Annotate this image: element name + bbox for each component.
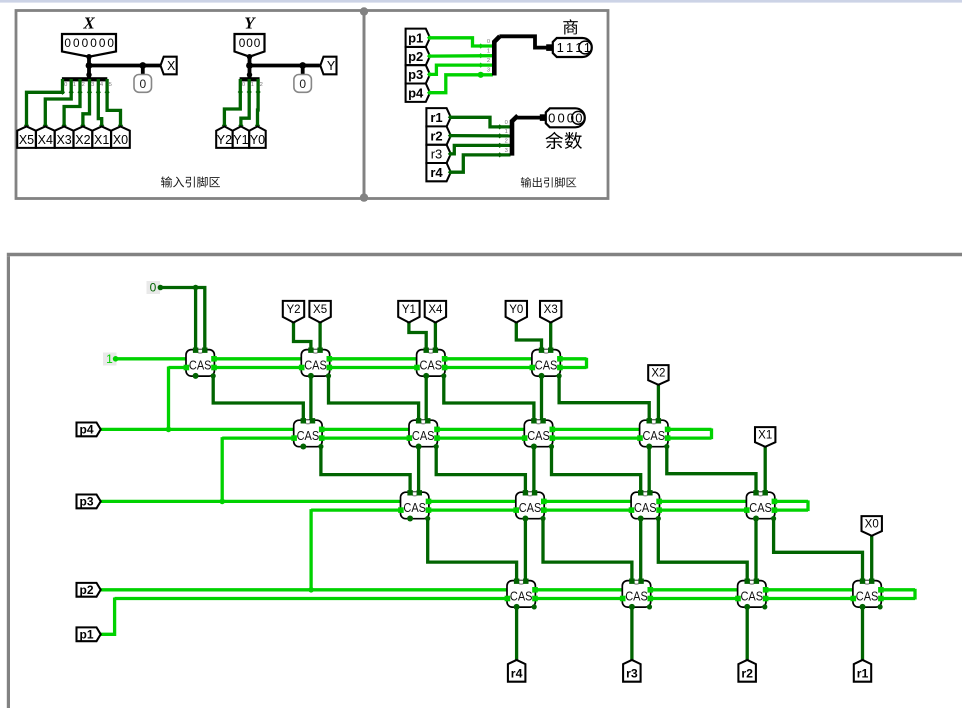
wire: CAS r4c3 to tunnel r2 <box>746 607 749 662</box>
wire: row 2 control line (P) <box>99 428 712 431</box>
tunnel r4 <box>508 660 526 682</box>
label quotient (shang) <box>563 19 578 34</box>
joint at tunnel X5 <box>318 319 323 324</box>
wire end at tunnel r3 <box>448 151 453 156</box>
wire: CAS r1c1 sum-out to CAS r2c1 top-left <box>213 376 303 420</box>
wire end at tunnel r1 <box>448 115 453 120</box>
wire: tunnel X5 to CAS r1c2 top-right <box>318 322 321 350</box>
wire: row3 P chain down to p2 line <box>309 509 312 590</box>
splitter quotient (4 to 1) <box>494 36 500 75</box>
joint on remainder bit2 <box>497 143 502 148</box>
tunnel Y <box>320 57 336 75</box>
svg-text:CAS: CAS <box>510 589 533 603</box>
joint at constant 0 <box>158 285 164 291</box>
tunnel p1 <box>77 627 101 641</box>
tunnel Y0 <box>506 301 527 323</box>
output pin quotient (value 1111) <box>553 38 592 57</box>
tunnel Y1 <box>398 301 419 323</box>
svg-text:CAS: CAS <box>535 358 558 372</box>
wire: CAS r3c4 sum-out to CAS r4c4 top-left <box>774 519 863 581</box>
wire: row 2 U-turn <box>710 428 713 439</box>
svg-text:r2: r2 <box>430 128 442 143</box>
wire: tunnel X4 to CAS r1c3 top-right <box>434 322 437 350</box>
tunnel X4 <box>36 126 55 147</box>
tunnel r3 <box>623 660 641 682</box>
svg-text:1: 1 <box>566 40 573 55</box>
svg-text:p2: p2 <box>79 583 93 597</box>
svg-text:2: 2 <box>260 82 263 88</box>
output pin stub <box>546 44 553 51</box>
tunnel X2 <box>648 365 668 385</box>
wire joint on X leg 2 <box>77 90 82 95</box>
svg-text:1: 1 <box>251 82 254 88</box>
wire: r4 to remainder splitter bit3 <box>451 155 511 172</box>
wire joint on X leg 5 <box>105 90 110 95</box>
tunnel X1 <box>755 427 775 447</box>
tunnel Y2 <box>283 301 304 323</box>
svg-text:1: 1 <box>557 40 564 55</box>
svg-text:CAS: CAS <box>749 501 772 515</box>
svg-text:0: 0 <box>90 36 97 50</box>
caption: output pin area <box>521 177 576 187</box>
wire: CAS r3c3 rem-out down to CAS r4c2 top-right <box>639 519 642 581</box>
wire: row 3 control line (P) <box>99 500 808 503</box>
svg-text:p1: p1 <box>79 628 93 642</box>
wire: X splitter leg 3 to tunnel X2 <box>83 79 90 128</box>
tunnel X5 <box>309 301 330 323</box>
CAS cell row 1 col 3 <box>414 348 447 379</box>
svg-text:0: 0 <box>567 111 574 126</box>
wire: CAS r3c3 sum-out to CAS r4c3 top-left <box>658 519 747 581</box>
window top strip <box>0 0 962 3</box>
svg-text:r4: r4 <box>511 666 523 680</box>
svg-text:1: 1 <box>505 129 508 135</box>
CAS cell row 1 col 4 <box>530 348 563 379</box>
svg-text:0: 0 <box>505 120 508 126</box>
panel frame: input pin area <box>16 11 364 199</box>
wire: X bus to tunnel X <box>89 64 161 68</box>
wire: CAS r1c2 sum-out to CAS r2c2 top-left <box>329 376 419 420</box>
tunnel r4 <box>426 163 450 181</box>
junction at probe X stub <box>139 62 146 69</box>
wire: tunnel Y0 to CAS r1c4 top-left <box>516 322 541 350</box>
svg-text:0: 0 <box>242 82 245 88</box>
svg-text:0: 0 <box>73 36 80 50</box>
joint at tunnel Y0 <box>514 319 519 324</box>
wire end at tunnel r2 <box>448 133 453 138</box>
wire: X splitter leg 2 to tunnel X3 <box>64 79 80 128</box>
joint at tunnel X0 <box>869 533 874 538</box>
wire end at X tunnel <box>43 123 48 128</box>
wire: CAS r2c3 rem-out down to CAS r3c2 top-right <box>532 447 535 493</box>
joint at tunnel Y2 <box>291 319 296 324</box>
wire: CAS r1c2 rem-out down to CAS r2c1 top-right <box>309 376 312 420</box>
wire: r3 to remainder splitter bit2 <box>451 145 511 154</box>
svg-text:X3: X3 <box>56 133 71 147</box>
svg-text:Y0: Y0 <box>509 304 523 316</box>
svg-text:0: 0 <box>82 36 89 50</box>
tunnel r2 <box>738 660 756 682</box>
wire: r2 to remainder splitter bit1 <box>451 134 511 138</box>
svg-text:X0: X0 <box>865 519 879 531</box>
svg-text:CAS: CAS <box>304 358 327 372</box>
svg-text:CAS: CAS <box>403 501 426 515</box>
svg-text:0: 0 <box>99 36 106 50</box>
junction constant 0 wire <box>193 285 199 291</box>
probe Y (value 0) <box>294 75 312 93</box>
svg-text:CAS: CAS <box>519 501 542 515</box>
junction at X pin output <box>86 54 91 59</box>
CAS cell row 3 col 3 <box>629 490 662 521</box>
wire: tunnel X2 to CAS r2c4 top-right <box>657 381 660 421</box>
CAS cell row 4 col 2 <box>620 579 653 610</box>
svg-text:0: 0 <box>557 111 564 126</box>
wire: Y splitter leg 0 to tunnel Y2 <box>224 79 240 128</box>
wire: tunnel Y2 to CAS r1c2 top-left <box>294 322 311 350</box>
svg-text:X: X <box>167 59 176 73</box>
svg-text:Y0: Y0 <box>250 133 265 147</box>
wire end at X tunnel <box>24 123 29 128</box>
caption: input pin area <box>161 176 220 187</box>
svg-text:1: 1 <box>73 82 76 88</box>
junction on X bus <box>86 62 93 69</box>
splitter remainder (4 to 1) <box>512 116 518 156</box>
wire joint on Y leg 1 <box>247 89 252 94</box>
svg-text:2: 2 <box>82 82 85 88</box>
wire: CAS r4c4 to tunnel r1 <box>861 607 864 662</box>
svg-text:X0: X0 <box>113 133 128 147</box>
joint at tunnel X3 <box>548 319 553 324</box>
wire joint on X leg 3 <box>87 90 92 95</box>
svg-text:CAS: CAS <box>420 358 443 372</box>
joint at tunnel p1 <box>95 632 100 637</box>
joint at constant 1 <box>113 356 119 362</box>
tunnel X4 <box>425 301 446 323</box>
junction p3 line <box>219 499 225 505</box>
svg-text:0: 0 <box>107 36 114 50</box>
svg-text:CAS: CAS <box>189 358 212 372</box>
tunnel p3 <box>77 495 101 509</box>
wire end at X tunnel <box>80 123 85 128</box>
junction above Y splitter <box>247 72 252 77</box>
splitter Y (1 to 3) <box>240 77 260 81</box>
joint at tunnel X1 <box>763 444 768 449</box>
svg-text:r3: r3 <box>431 147 443 162</box>
svg-text:1: 1 <box>584 40 591 55</box>
wire: CAS r3c2 rem-out down to CAS r4c1 top-right <box>524 519 527 581</box>
CAS cell row 4 col 3 <box>735 579 768 610</box>
tunnel X5 <box>17 126 36 147</box>
wire: r1 to remainder splitter bit0 <box>451 117 511 127</box>
wire: CAS r4c1 to tunnel r4 <box>515 607 518 662</box>
wire: CAS r1c3 sum-out to CAS r2c3 top-left <box>444 376 534 420</box>
joint on quotient bit2 <box>478 63 483 68</box>
output pin stub (remainder) <box>540 114 547 121</box>
main circuit panel border <box>7 256 10 708</box>
svg-text:2: 2 <box>487 58 490 64</box>
svg-text:Y2: Y2 <box>217 133 232 147</box>
svg-text:p4: p4 <box>408 85 424 100</box>
svg-text:0: 0 <box>299 77 306 91</box>
wire end at tunnel p3 <box>427 72 432 77</box>
tunnel r2 <box>426 126 450 144</box>
wire: row 1 control return line <box>169 366 587 369</box>
joint at tunnel p3 <box>95 499 100 504</box>
junction p4 line <box>166 427 172 433</box>
junction p2 line <box>308 587 314 593</box>
junction at Y pin output <box>247 54 252 59</box>
wire: row 1 U-turn <box>585 358 588 369</box>
svg-text:Y1: Y1 <box>233 133 248 147</box>
wire: row 2 control return line <box>222 436 711 439</box>
svg-text:X5: X5 <box>19 133 34 147</box>
svg-text:5: 5 <box>109 82 112 88</box>
wire: X pin to splitter <box>87 57 91 79</box>
svg-text:p4: p4 <box>79 423 93 437</box>
CAS cell row 3 col 2 <box>513 490 546 521</box>
wire: CAS r2c2 rem-out down to CAS r3c1 top-right <box>417 447 420 493</box>
svg-text:r1: r1 <box>430 110 442 125</box>
svg-text:0: 0 <box>139 77 146 91</box>
tunnel X0 <box>111 126 130 147</box>
tunnel p2 <box>406 47 430 65</box>
wire end at X tunnel <box>118 123 123 128</box>
svg-text:p3: p3 <box>79 495 93 509</box>
wire joint on X leg 0 <box>60 90 65 95</box>
wire: constant 0 to CAS row1 col1 top pins <box>161 288 205 350</box>
wire: CAS r1c4 sum-out to CAS r2c4 top-left <box>559 376 649 420</box>
wire: quotient splitter to output pin <box>499 36 550 47</box>
wire end at tunnel p1 <box>427 35 432 40</box>
CAS cell row 3 col 4 <box>744 490 777 521</box>
joint on quotient bit1 <box>478 53 483 58</box>
svg-text:0: 0 <box>575 111 582 126</box>
CAS cell row 4 col 4 <box>851 579 884 610</box>
tunnel p4 <box>77 423 101 437</box>
svg-text:p2: p2 <box>408 49 423 64</box>
wire: CAS r4c2 to tunnel r3 <box>630 607 633 662</box>
wire end at tunnel r4 <box>448 170 453 175</box>
svg-text:X5: X5 <box>313 304 327 316</box>
joint on remainder bit1 <box>497 133 502 138</box>
junction on Y bus <box>246 62 253 69</box>
svg-text:Y2: Y2 <box>286 304 300 316</box>
wire: CAS r2c3 sum-out to CAS r3c3 top-left <box>552 447 641 493</box>
svg-text:p1: p1 <box>408 31 423 46</box>
svg-text:0: 0 <box>246 36 253 50</box>
wire: CAS r1c4 rem-out down to CAS r2c3 top-right <box>540 376 543 420</box>
svg-text:2: 2 <box>505 138 508 144</box>
svg-text:Y: Y <box>244 14 256 33</box>
wire: row 3 U-turn <box>806 500 809 511</box>
CAS cell row 2 col 4 <box>637 418 670 449</box>
tunnel X2 <box>74 126 93 147</box>
tunnel X0 <box>862 516 882 536</box>
svg-text:0: 0 <box>64 36 71 50</box>
wire: CAS r3c1 sum-out to CAS r4c1 top-left <box>428 519 517 581</box>
wire: X splitter leg 5 to tunnel X0 <box>107 79 120 128</box>
CAS cell row 1 col 2 <box>299 348 332 379</box>
wire: row 4 control line (P) <box>99 588 915 591</box>
svg-text:1: 1 <box>575 40 582 55</box>
wire end at tunnel p4 <box>427 90 432 95</box>
svg-text:Y: Y <box>327 59 336 73</box>
CAS cell row 2 col 2 <box>407 418 440 449</box>
wire end at Y tunnel <box>255 123 260 128</box>
CAS cell row 2 col 1 <box>291 418 324 449</box>
tunnel p2 <box>77 583 101 597</box>
wire: X splitter leg 4 to tunnel X1 <box>98 79 101 128</box>
wire: stub to probe X <box>141 66 145 76</box>
probe X (value 0) <box>134 75 152 93</box>
splitter X (1 to 6) <box>62 77 107 81</box>
joint on remainder bit3 <box>497 152 502 157</box>
joint at tunnel X2 <box>656 382 661 387</box>
svg-text:CAS: CAS <box>741 589 764 603</box>
svg-text:0: 0 <box>487 39 490 45</box>
svg-text:CAS: CAS <box>412 429 435 443</box>
input pin Y (3-bit value 000) <box>235 34 265 57</box>
wire: stub to probe Y <box>301 66 305 76</box>
joint on quotient bit0 <box>478 43 483 48</box>
wire: tunnel p1 up to row4 line <box>99 598 115 635</box>
wire: p1 to quotient splitter bit0 <box>430 38 493 46</box>
wire joint on X leg 1 <box>69 90 74 95</box>
svg-text:CAS: CAS <box>527 429 550 443</box>
wire: p2 to quotient splitter bit1 <box>430 54 493 58</box>
svg-text:3: 3 <box>487 68 490 74</box>
tunnel X1 <box>92 126 111 147</box>
constant 1 <box>103 352 117 366</box>
junction on quotient bit3 <box>478 72 484 78</box>
tunnel X <box>161 57 177 75</box>
svg-text:0: 0 <box>548 111 555 126</box>
svg-text:X2: X2 <box>75 133 90 147</box>
svg-text:0: 0 <box>150 281 157 295</box>
svg-text:X4: X4 <box>38 133 53 147</box>
tunnel Y2 <box>216 126 232 147</box>
joint on remainder bit0 <box>497 124 502 129</box>
svg-text:CAS: CAS <box>297 429 320 443</box>
CAS cell row 4 col 1 <box>505 579 538 610</box>
tunnel p4 <box>406 84 430 102</box>
wire: tunnel X0 to CAS r4c4 top-right <box>870 532 873 581</box>
svg-text:CAS: CAS <box>625 589 648 603</box>
svg-text:0: 0 <box>64 82 67 88</box>
tunnel Y0 <box>249 126 265 147</box>
svg-text:0: 0 <box>239 36 246 50</box>
tunnel p1 <box>406 29 430 47</box>
wire joint on X leg 4 <box>96 90 101 95</box>
wire: p3 to quotient splitter bit2 <box>430 65 493 74</box>
svg-text:r3: r3 <box>626 666 638 680</box>
wire: CAS r1c3 rem-out down to CAS r2c2 top-right <box>425 376 428 420</box>
wire: Y pin to splitter <box>248 57 252 79</box>
frame handle top <box>360 7 368 15</box>
svg-text:X3: X3 <box>544 304 558 316</box>
wire joint on Y leg 2 <box>256 89 261 94</box>
svg-text:Y1: Y1 <box>402 304 416 316</box>
svg-text:r2: r2 <box>741 666 753 680</box>
svg-text:3: 3 <box>91 82 94 88</box>
frame handle bottom <box>360 193 368 201</box>
tunnel X3 <box>55 126 74 147</box>
wire: CAS r2c1 sum-out to CAS r3c1 top-left <box>321 447 410 493</box>
wire: X splitter leg 1 to tunnel X4 <box>45 79 71 128</box>
joint at tunnel r4 <box>514 659 519 664</box>
tunnel p3 <box>406 65 430 83</box>
label remainder (yushu) <box>545 132 582 149</box>
CAS cell row 1 col 1 <box>184 348 217 379</box>
svg-text:X: X <box>82 14 95 33</box>
svg-text:CAS: CAS <box>634 501 657 515</box>
svg-text:X1: X1 <box>758 430 772 442</box>
wire end at X tunnel <box>62 123 67 128</box>
wire end at Y tunnel <box>222 123 227 128</box>
svg-text:r1: r1 <box>857 666 869 680</box>
wire end at X tunnel <box>99 123 104 128</box>
svg-text:3: 3 <box>505 148 508 154</box>
svg-text:r4: r4 <box>430 165 443 180</box>
joint at tunnel r2 <box>745 659 750 664</box>
joint at tunnel r1 <box>860 659 865 664</box>
svg-text:X1: X1 <box>94 133 109 147</box>
wire: CAS r2c2 sum-out to CAS r3c2 top-left <box>436 447 525 493</box>
svg-text:1: 1 <box>106 352 113 366</box>
svg-text:CAS: CAS <box>856 589 879 603</box>
joint at tunnel X4 <box>433 319 438 324</box>
constant 0 <box>147 281 161 295</box>
svg-text:1: 1 <box>487 49 490 55</box>
wire: Y bus to tunnel Y <box>250 64 320 68</box>
joint at tunnel p4 <box>95 427 100 432</box>
wire: row2 P chain down to p3 line <box>221 437 224 501</box>
wire joint on Y leg 0 <box>238 89 243 94</box>
wire: CAS r3c4 rem-out down to CAS r4c3 top-right <box>754 519 757 581</box>
wire: X splitter leg 0 to tunnel X5 <box>27 79 63 128</box>
wire: row 4 control return line <box>115 597 915 600</box>
svg-text:0: 0 <box>254 36 261 50</box>
output pin remainder (value 0000) <box>546 108 585 127</box>
tunnel Y1 <box>233 126 249 147</box>
junction above X splitter <box>86 72 91 77</box>
input pin X (6-bit value 000000) <box>62 34 116 57</box>
joint at tunnel Y1 <box>406 319 411 324</box>
wire: row 4 U-turn <box>913 589 916 600</box>
tunnel r1 <box>426 108 450 126</box>
junction at probe Y stub <box>299 62 306 69</box>
wire: row1 P chain down to p4 line <box>167 367 170 430</box>
wire: p4 to quotient splitter bit3 <box>430 75 493 93</box>
wire: CAS r3c2 sum-out to CAS r4c2 top-left <box>543 519 632 581</box>
svg-text:CAS: CAS <box>643 429 666 443</box>
wire: tunnel X1 to CAS r3c4 top-right <box>764 443 767 493</box>
joint at tunnel r3 <box>629 659 634 664</box>
panel frame: output pin area <box>364 11 608 199</box>
wire end at tunnel p2 <box>427 54 432 59</box>
tunnel r1 <box>854 660 871 682</box>
wire: CAS r2c4 rem-out down to CAS r3c3 top-right <box>648 447 651 493</box>
svg-text:X4: X4 <box>428 304 443 316</box>
wire: Y splitter leg 1 to tunnel Y1 <box>241 79 249 128</box>
wire: CAS r2c4 sum-out to CAS r3c4 top-left <box>667 447 756 493</box>
joint at tunnel p2 <box>95 587 100 592</box>
CAS cell row 2 col 3 <box>522 418 555 449</box>
tunnel r3 <box>426 145 450 163</box>
wire end at Y tunnel <box>238 123 243 128</box>
wire: remainder splitter to output pin <box>517 116 543 120</box>
svg-text:X2: X2 <box>651 368 665 380</box>
